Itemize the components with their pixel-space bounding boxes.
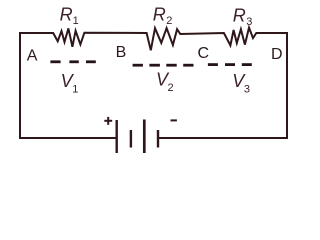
- svg-text:2: 2: [168, 82, 174, 94]
- svg-text:3: 3: [246, 16, 252, 28]
- svg-text:2: 2: [166, 15, 172, 27]
- svg-text:A: A: [27, 47, 38, 64]
- svg-text:3: 3: [244, 83, 250, 95]
- svg-text:C: C: [198, 45, 210, 62]
- svg-text:1: 1: [72, 83, 78, 95]
- svg-text:R: R: [153, 4, 166, 24]
- svg-text:B: B: [116, 44, 127, 61]
- svg-text:R: R: [233, 6, 246, 26]
- svg-text:D: D: [271, 46, 283, 63]
- svg-text:R: R: [60, 5, 73, 25]
- svg-text:1: 1: [73, 15, 79, 27]
